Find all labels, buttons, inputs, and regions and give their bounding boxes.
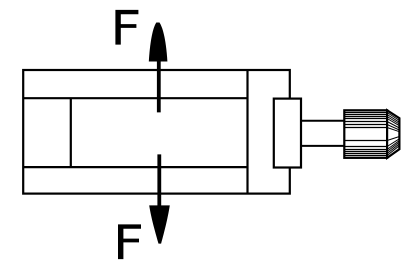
arrow down shaft bbox=[157, 154, 161, 207]
label F top bbox=[115, 10, 138, 45]
inner top line bbox=[23, 97, 247, 99]
inner bottom line bbox=[23, 166, 247, 168]
flange bbox=[274, 99, 301, 168]
knob cylinder bbox=[344, 110, 387, 158]
label F bottom bbox=[118, 224, 141, 259]
body divider line (end cap boundary) bbox=[246, 70, 248, 194]
cap fan lines bbox=[387, 113, 399, 156]
knurl lines bbox=[344, 113, 387, 156]
inner left divider bbox=[70, 98, 72, 167]
arrow up head bbox=[149, 23, 168, 62]
knob cap bbox=[387, 110, 399, 158]
shaft top line bbox=[301, 120, 344, 122]
cylinder body outline bbox=[23, 70, 290, 194]
arrow down head bbox=[149, 205, 170, 243]
shaft bottom line bbox=[301, 145, 344, 147]
arrow up shaft bbox=[157, 60, 161, 112]
